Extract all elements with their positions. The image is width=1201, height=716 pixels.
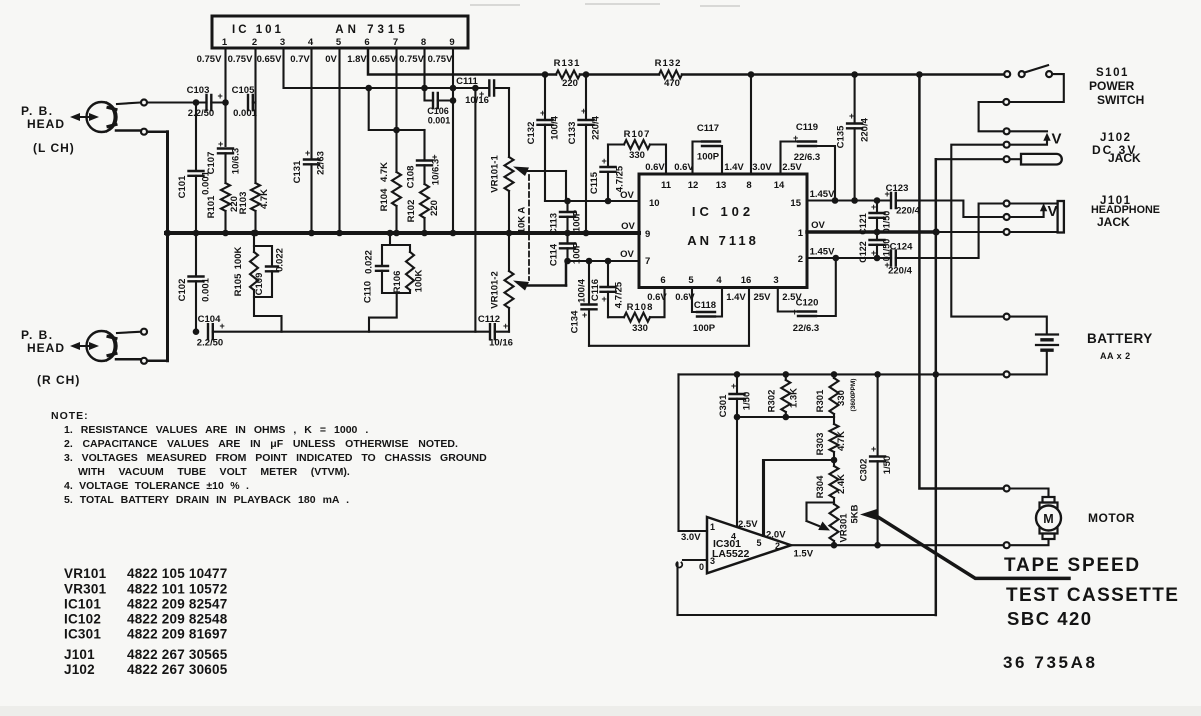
battery terminal minus [1004,371,1010,377]
svg-text:13: 13 [716,180,727,191]
P.B. HEAD (R CH) transducer [87,331,117,361]
junction R106 block top [387,230,394,237]
head R terminal top [141,329,147,335]
junction R105 block top [251,230,258,237]
switch link terminal [1003,99,1009,105]
resistor R301 [815,374,857,417]
svg-text:1.45V: 1.45V [810,189,835,200]
svg-text:6: 6 [364,37,369,48]
svg-text:5KB: 5KB [850,504,861,523]
wire IC101 pin9 to bus [452,48,454,233]
wire J102 t2 to battery plus [951,145,1003,317]
capacitor C120 [778,258,836,334]
svg-text:SBC 420: SBC 420 [1007,608,1093,629]
junction C115-pin10 line [605,198,612,205]
resistor R102 [406,184,440,222]
svg-text:15: 15 [790,198,801,209]
svg-text:C122: C122 [858,241,868,263]
wire VR101-1 wiper to pin10 line [565,171,567,201]
label J102 DC 3V JACK [1092,132,1141,165]
svg-text:100K: 100K [233,247,244,270]
capacitor C132 from power rail [526,75,561,202]
svg-text:16: 16 [741,275,752,286]
svg-text:M: M [1043,512,1053,526]
svg-text:JACK: JACK [1108,151,1141,165]
scan artifact bottom band [0,706,1201,716]
svg-text:12: 12 [688,180,699,191]
wire pin3 drop to bottom rail [676,564,678,616]
wire IC101 pin6 to power rail [368,48,556,75]
svg-text:3: 3 [773,275,778,286]
capacitor C118 [692,288,722,335]
svg-text:1. RESISTANCE VALUES ARE IN OH: 1. RESISTANCE VALUES ARE IN OHMS , K = 1… [64,424,368,436]
capacitor C123 [885,183,921,217]
svg-text:VR101-2: VR101-2 [490,271,501,309]
junction C121 top [874,197,881,204]
svg-text:(3600PPM): (3600PPM) [850,379,857,412]
svg-text:4. VOLTAGE TOLERANCE ±10 % .: 4. VOLTAGE TOLERANCE ±10 % . [64,480,249,492]
svg-text:C131: C131 [292,160,303,183]
capacitor C122 [858,232,892,263]
svg-text:C118: C118 [694,300,716,311]
svg-text:+: + [305,148,310,158]
resistor R304 [815,460,847,504]
junction rail-motor line [916,71,923,78]
junction C133-bus [583,230,590,237]
svg-text:100K: 100K [414,270,425,293]
junction pin9-bus [450,230,457,237]
IC102 bottom voltage labels [647,292,802,303]
wire IC102 pin7 line [567,260,639,262]
junction R101-bus [222,230,229,237]
wire R302 bottom line [737,416,834,418]
svg-text:4.7K: 4.7K [259,189,270,209]
svg-text:R107: R107 [624,129,651,140]
junction pin7-connector [393,127,400,134]
svg-text:0.65V: 0.65V [257,54,282,65]
junction R104-bus [393,230,400,237]
svg-text:8: 8 [421,37,426,48]
svg-text:11: 11 [661,180,672,191]
wire C112 to VR101-2 [495,331,509,333]
head R motion arrow [70,342,99,350]
svg-text:1: 1 [710,522,715,532]
junction C121 bottom [874,229,881,236]
capacitor C115 [589,145,626,202]
motor terminal bottom [1004,542,1010,548]
svg-text:25V: 25V [754,292,772,303]
svg-text:C301: C301 [718,394,729,417]
junction bus-left [164,230,171,237]
jack J101 terminal 1 [1004,201,1010,207]
label P.B. HEAD (R CH) [21,328,80,387]
wire C111 to VR101-1 [494,87,509,89]
junction C134-pin7 line [586,258,593,265]
svg-text:9: 9 [645,229,650,240]
svg-text:100/4: 100/4 [577,278,588,302]
svg-text:POWER: POWER [1089,79,1135,93]
wire C105 to pin2 [253,101,256,103]
svg-text:4822 267 30605: 4822 267 30605 [127,662,228,677]
svg-text:LA5522: LA5522 [712,548,750,560]
junction pin9 on C111 line [450,85,457,92]
junction rail-IC102pin8 [748,71,755,78]
resistor R103 [238,183,270,214]
power rail middle segment [580,73,1007,76]
capacitor C107 [206,139,242,174]
svg-text:+: + [602,156,607,166]
wire J102 t2 with arrow [1010,133,1051,145]
svg-text:AN 7118: AN 7118 [687,233,759,248]
svg-text:330: 330 [629,150,645,161]
svg-text:0.6V: 0.6V [647,292,667,303]
svg-text:IC301: IC301 [64,627,101,642]
svg-text:4822 267 30565: 4822 267 30565 [127,647,228,662]
wire R104 block connector [369,88,425,130]
capacitor C116 [590,261,625,317]
svg-text:01/50: 01/50 [882,211,892,234]
svg-text:2. CAPACITANCE VALUES ARE IN μ: 2. CAPACITANCE VALUES ARE IN μF UNLESS O… [64,438,458,450]
svg-text:VR101: VR101 [64,566,107,581]
capacitor C135 [836,75,871,201]
svg-text:0.75V: 0.75V [228,54,253,65]
label P.B. HEAD (L CH) [21,104,75,155]
wire IC101 pin2 drop [254,48,256,183]
svg-text:330: 330 [632,323,648,334]
svg-text:3. VOLTAGES MEASURED FROM POIN: 3. VOLTAGES MEASURED FROM POINT INDICATE… [64,452,487,464]
capacitor C302 [859,374,894,545]
svg-text:2.0V: 2.0V [766,530,786,541]
wire switch to J102 link [979,74,1064,131]
wire IC102 pin10 line [545,200,639,202]
svg-text:0.65V: 0.65V [372,54,397,65]
junction C119-pin15 line [832,197,839,204]
svg-text:HEAD: HEAD [27,341,65,355]
wire R105 block bottom elbow [254,297,282,332]
junction C135-pin15 line [851,197,858,204]
svg-text:22/6.3: 22/6.3 [793,323,819,334]
wire C102 to C104 line [195,281,197,331]
svg-text:10/16: 10/16 [489,338,513,349]
svg-text:2.5V: 2.5V [782,162,802,173]
VR101-1 wiper arrow [513,167,566,177]
potentiometer VR101-2 [490,271,514,309]
svg-text:JACK: JACK [1097,215,1130,229]
svg-text:+: + [849,111,854,121]
junction 0V-main vertical [933,228,940,235]
junction C103-pin1 [222,99,229,106]
svg-text:4.7/25: 4.7/25 [614,281,625,308]
junction C102-C104 line [193,328,200,335]
junction R302 bottom [783,414,790,421]
svg-text:+: + [792,307,797,317]
junction C113 bus [564,230,571,237]
svg-text:0.001: 0.001 [428,116,451,126]
junction C122 bottom [874,255,881,262]
svg-text:C107: C107 [206,152,217,175]
svg-text:+: + [503,321,508,331]
svg-text:BATTERY: BATTERY [1087,331,1153,346]
svg-text:C114: C114 [549,243,560,266]
scan artifact line top [470,4,740,6]
svg-text:C117: C117 [697,123,719,134]
svg-text:0.6V: 0.6V [674,162,694,173]
svg-text:P. B.: P. B. [21,104,54,118]
capacitor C114 [549,233,583,266]
capacitor C119 [781,122,836,201]
IC101 pin voltage labels [197,54,453,65]
svg-text:C133: C133 [567,122,578,145]
svg-text:R106: R106 [392,271,403,294]
svg-text:1.5V: 1.5V [794,549,814,560]
capacitor C134 [570,261,597,346]
resistor R131 [554,58,581,89]
svg-text:1.8V: 1.8V [347,54,367,65]
svg-text:4822 209 82548: 4822 209 82548 [127,612,228,627]
svg-text:C124: C124 [890,242,913,253]
resistor R104 [379,162,401,212]
svg-text:0.022: 0.022 [364,250,375,274]
wire IC101 pin4 drop [310,48,312,159]
IC102 pin numbers [645,180,804,286]
svg-text:C102: C102 [177,279,188,302]
jack J101 terminal 3 [1004,229,1010,235]
svg-text:01/50: 01/50 [882,239,892,262]
junction C301-R302 line [734,414,741,421]
capacitor C133 from power rail [567,75,602,234]
capacitor C101 [177,103,212,199]
dashed mechanical link VR101 [528,175,530,280]
wire IC101 pin3 to C111 line [284,48,490,88]
capacitor C104 [197,314,225,349]
head L terminal bottom [141,129,147,135]
wire R106 block bottom elbow [369,293,397,332]
svg-text:WITH VACUUM TUBE VOLT METER (V: WITH VACUUM TUBE VOLT METER (VTVM). [78,466,350,478]
svg-text:2.2/50: 2.2/50 [188,108,214,119]
resistor R302 [767,374,800,417]
motor M symbol [1010,489,1061,546]
jack J101 terminal 2 [1004,214,1010,220]
P.B. HEAD (L CH) transducer [87,102,117,132]
svg-text:R102: R102 [406,200,417,223]
svg-text:4: 4 [731,532,736,542]
svg-text:2: 2 [775,541,780,551]
junction C302-rail [874,371,881,378]
label BATTERY AAx2 [1087,331,1153,361]
wire R101 to bus [224,211,226,233]
svg-text:4.7K: 4.7K [379,162,390,182]
svg-text:10/6.3: 10/6.3 [431,159,442,185]
wire IC102 pin8 top drop [750,75,752,175]
capacitor C124 [885,242,914,277]
wire VR101-2 wiper to C114 [565,261,568,286]
capacitor C102 [177,233,212,302]
svg-text:C101: C101 [177,175,188,198]
svg-text:22/6.3: 22/6.3 [794,152,820,163]
junction C114 bottom [564,258,571,265]
J101 barrel bar [1058,201,1064,233]
svg-text:2: 2 [798,254,803,265]
svg-text:10/6.3: 10/6.3 [231,148,242,174]
svg-text:C302: C302 [859,459,870,482]
head L terminal top [141,100,147,106]
battery symbol [1010,317,1058,375]
svg-text:R303: R303 [815,433,826,456]
potentiometer VR101-1 [490,155,514,193]
potentiometer VR301 [830,504,861,545]
svg-text:V: V [1052,131,1062,148]
resistor R101 [206,183,240,218]
svg-text:C121: C121 [858,213,868,235]
wire IC102 pin1 0V line [807,230,936,234]
junction C302-1.5V line [874,542,881,549]
wire J101 t2 with arrow [1010,203,1047,217]
svg-text:+: + [731,381,736,391]
junction rail-C132 [542,71,549,78]
wire C112 branch vertical [474,88,476,332]
NOTE text block [51,410,487,506]
wire pin5 drop [762,460,764,536]
svg-text:2.4K: 2.4K [836,474,847,494]
IC IC101 AN7315 box [212,16,468,48]
capacitor C121 [858,201,892,235]
wire J102 t3 to main vertical [936,158,1003,160]
svg-text:(L CH): (L CH) [33,141,75,155]
svg-text:R103: R103 [238,192,249,215]
op-amp IC301 triangle [707,517,791,573]
svg-text:220/4: 220/4 [860,117,871,141]
svg-text:C115: C115 [589,171,600,194]
wire R104 to bus [395,206,397,233]
wire IC102 pin15 line [807,201,1003,218]
wire osc rail left drop to pin1 [679,374,708,531]
wire IC102 pin2 line [807,204,1003,259]
svg-text:0.001: 0.001 [233,108,257,119]
svg-text:5: 5 [336,37,342,48]
svg-text:VR101-1: VR101-1 [490,155,501,193]
wire IC101 pin1 drop [224,48,226,146]
junction R301-rail [831,371,838,378]
svg-text:R302: R302 [767,390,778,413]
svg-text:+: + [220,321,225,331]
head R terminal bottom [141,358,147,364]
capacitor C105 [232,85,258,119]
svg-text:10K A: 10K A [517,207,528,234]
svg-text:+: + [871,444,876,454]
wire J102 t3 to barrel [1010,158,1021,160]
svg-text:+: + [885,189,890,199]
wire J101 t1 to barrel [1010,202,1058,204]
wire C106 to pin9 [438,99,453,101]
junction R103-bus [252,230,259,237]
svg-text:+: + [582,310,587,320]
svg-text:100/4: 100/4 [550,115,561,139]
svg-text:NOTE:: NOTE: [51,410,89,422]
svg-text:R132: R132 [655,58,682,69]
svg-text:0.001: 0.001 [201,170,212,194]
junction R303-R304 [831,457,838,464]
svg-text:1/50: 1/50 [882,456,893,475]
svg-text:9: 9 [449,37,454,48]
junction C113 top [564,198,571,205]
resistor R107 [608,129,666,174]
svg-text:HEAD: HEAD [27,117,65,131]
label J101 HEADPHONE JACK [1091,195,1160,229]
wire head R top to C104 [117,332,141,333]
TAPE SPEED leader arrow [860,509,1069,578]
head L motion arrow [70,113,99,121]
wire head L bottom to ground vertical [116,131,168,132]
junction rail-C135 [851,71,858,78]
svg-text:C134: C134 [570,310,581,333]
svg-text:IC 102: IC 102 [692,204,754,219]
svg-text:0V: 0V [325,54,337,65]
svg-text:4.7/25: 4.7/25 [615,165,626,192]
wire IC102 bottom rail [589,288,749,346]
junction VR301 bottom [831,542,838,549]
wire R102 to bus [423,218,425,233]
op-amp pin labels and voltages [699,519,814,572]
wire R103 to bus [254,211,256,233]
svg-text:4.7K: 4.7K [836,431,847,451]
svg-text:3.0V: 3.0V [752,162,772,173]
svg-text:IC101: IC101 [64,597,101,612]
wire motor supply vertical [919,75,1003,489]
wire head L top to C103 [117,103,207,105]
svg-text:C113: C113 [549,213,560,235]
svg-text:0.75V: 0.75V [428,54,453,65]
battery terminal plus [1004,314,1010,320]
svg-text:R104: R104 [379,188,390,211]
junction pin8 on C111 line [421,85,428,92]
svg-text:2.5V: 2.5V [738,519,758,530]
junction C120-pin2 line [833,255,840,262]
svg-text:MOTOR: MOTOR [1088,511,1135,525]
svg-text:5: 5 [688,275,694,286]
svg-text:R304: R304 [815,475,826,498]
wire oscillator bottom rail [678,614,936,616]
jack J102 terminal 2 [1004,142,1010,148]
svg-text:5. TOTAL BATTERY DRAIN IN PLAY: 5. TOTAL BATTERY DRAIN IN PLAYBACK 180 m… [64,494,349,506]
svg-text:R101: R101 [206,195,217,218]
svg-text:0.001: 0.001 [201,277,212,301]
svg-text:0.6V: 0.6V [645,162,665,173]
VR301 wiper loop [807,503,835,531]
capacitor C112 [478,314,513,349]
junction rail-C133 [583,71,590,78]
svg-text:+: + [793,133,798,143]
svg-text:3.0V: 3.0V [681,532,701,543]
svg-text:SWITCH: SWITCH [1097,93,1144,107]
junction C101-bus [193,230,200,237]
svg-text:VR301: VR301 [839,513,850,543]
wire IC101 pin7 drop [395,48,397,172]
wire op-amp pin3 with hook [676,560,707,567]
capacitor C301 and pin4 wire [718,374,753,527]
label S101 POWER SWITCH [1089,67,1144,107]
capacitor C111 [456,76,494,106]
wire head R bottom to ground vertical [116,359,168,361]
wire J102 t1 contact [1010,130,1047,132]
svg-text:10: 10 [649,198,660,209]
junction C101 top [193,99,200,106]
svg-text:C120: C120 [796,298,819,309]
svg-text:7: 7 [645,256,650,267]
svg-text:OV: OV [620,249,634,260]
svg-text:8: 8 [746,180,751,191]
svg-text:2.2/50: 2.2/50 [197,338,223,349]
wire C108 to R102 [423,165,425,184]
